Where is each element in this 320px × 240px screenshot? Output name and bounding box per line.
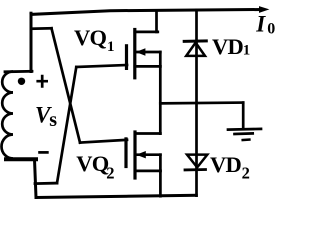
wire mid chain vertical: [159, 66, 162, 133]
svg-text:s: s: [49, 109, 57, 131]
wire top rail: [31, 10, 261, 15]
label minus: [38, 151, 49, 154]
wire bottom riser: [35, 159, 37, 197]
wire VQ2 body-source tie: [159, 155, 162, 171]
svg-text:VQ: VQ: [74, 25, 106, 50]
wire VQ1 drain riser: [155, 11, 158, 32]
diode VD1 cathode bar: [184, 39, 206, 43]
label plus: [36, 75, 48, 88]
svg-text:2: 2: [106, 164, 114, 183]
wire VQ2 drain lead: [135, 132, 160, 135]
wire diagonal to VQ1 gate: [57, 67, 76, 183]
wire bottom rail: [36, 195, 196, 197]
diode VD1 triangle: [186, 43, 205, 56]
wire VQ2 source lead: [135, 170, 160, 173]
wire left riser: [30, 13, 33, 71]
wire diagonal to VQ2 gate: [52, 28, 81, 142]
diode VD2 cathode bar: [185, 168, 206, 171]
ground: [228, 128, 261, 131]
diode VD2 triangle: [187, 155, 207, 168]
wire transformer top lead: [5, 70, 32, 73]
svg-text:VD: VD: [210, 152, 241, 177]
wire VQ2 body lead: [137, 153, 161, 156]
wire VQ1 gate lead: [76, 65, 127, 67]
wire VQ1 source lead: [135, 65, 161, 68]
wire VQ1 drain lead: [135, 31, 158, 34]
svg-text:0: 0: [267, 21, 275, 38]
node output arrow head: [259, 6, 269, 13]
transistor VQ1 body arrow: [136, 48, 146, 55]
svg-text:VD: VD: [212, 34, 243, 59]
wire ground branch: [160, 101, 243, 105]
wire ground drop: [242, 103, 245, 129]
transistor VQ2 channel bar: [133, 132, 136, 178]
transistor VQ2 gate bar: [124, 139, 127, 167]
svg-text:1: 1: [107, 39, 115, 55]
inductor transformer winding: [1, 72, 13, 159]
transistor VQ1 gate bar: [125, 46, 128, 69]
wire VQ1 body lead: [137, 51, 161, 54]
wire VQ1 body-source tie: [159, 52, 162, 66]
wire diode chain vertical: [195, 10, 198, 196]
wire gate branch bottom: [35, 182, 57, 185]
wire transformer bottom lead: [6, 157, 36, 161]
wire VQ2 source drop: [159, 171, 162, 196]
svg-text:I: I: [255, 12, 266, 37]
wire gate branch top: [31, 27, 52, 30]
svg-text:2: 2: [242, 163, 250, 182]
svg-text:1: 1: [243, 42, 251, 58]
svg-text:VQ: VQ: [76, 151, 108, 176]
node phasing dot: [18, 78, 25, 85]
transistor VQ1 channel bar: [133, 30, 136, 78]
transistor VQ2 body arrow: [136, 151, 146, 158]
wire VQ2 gate lead: [80, 140, 127, 143]
